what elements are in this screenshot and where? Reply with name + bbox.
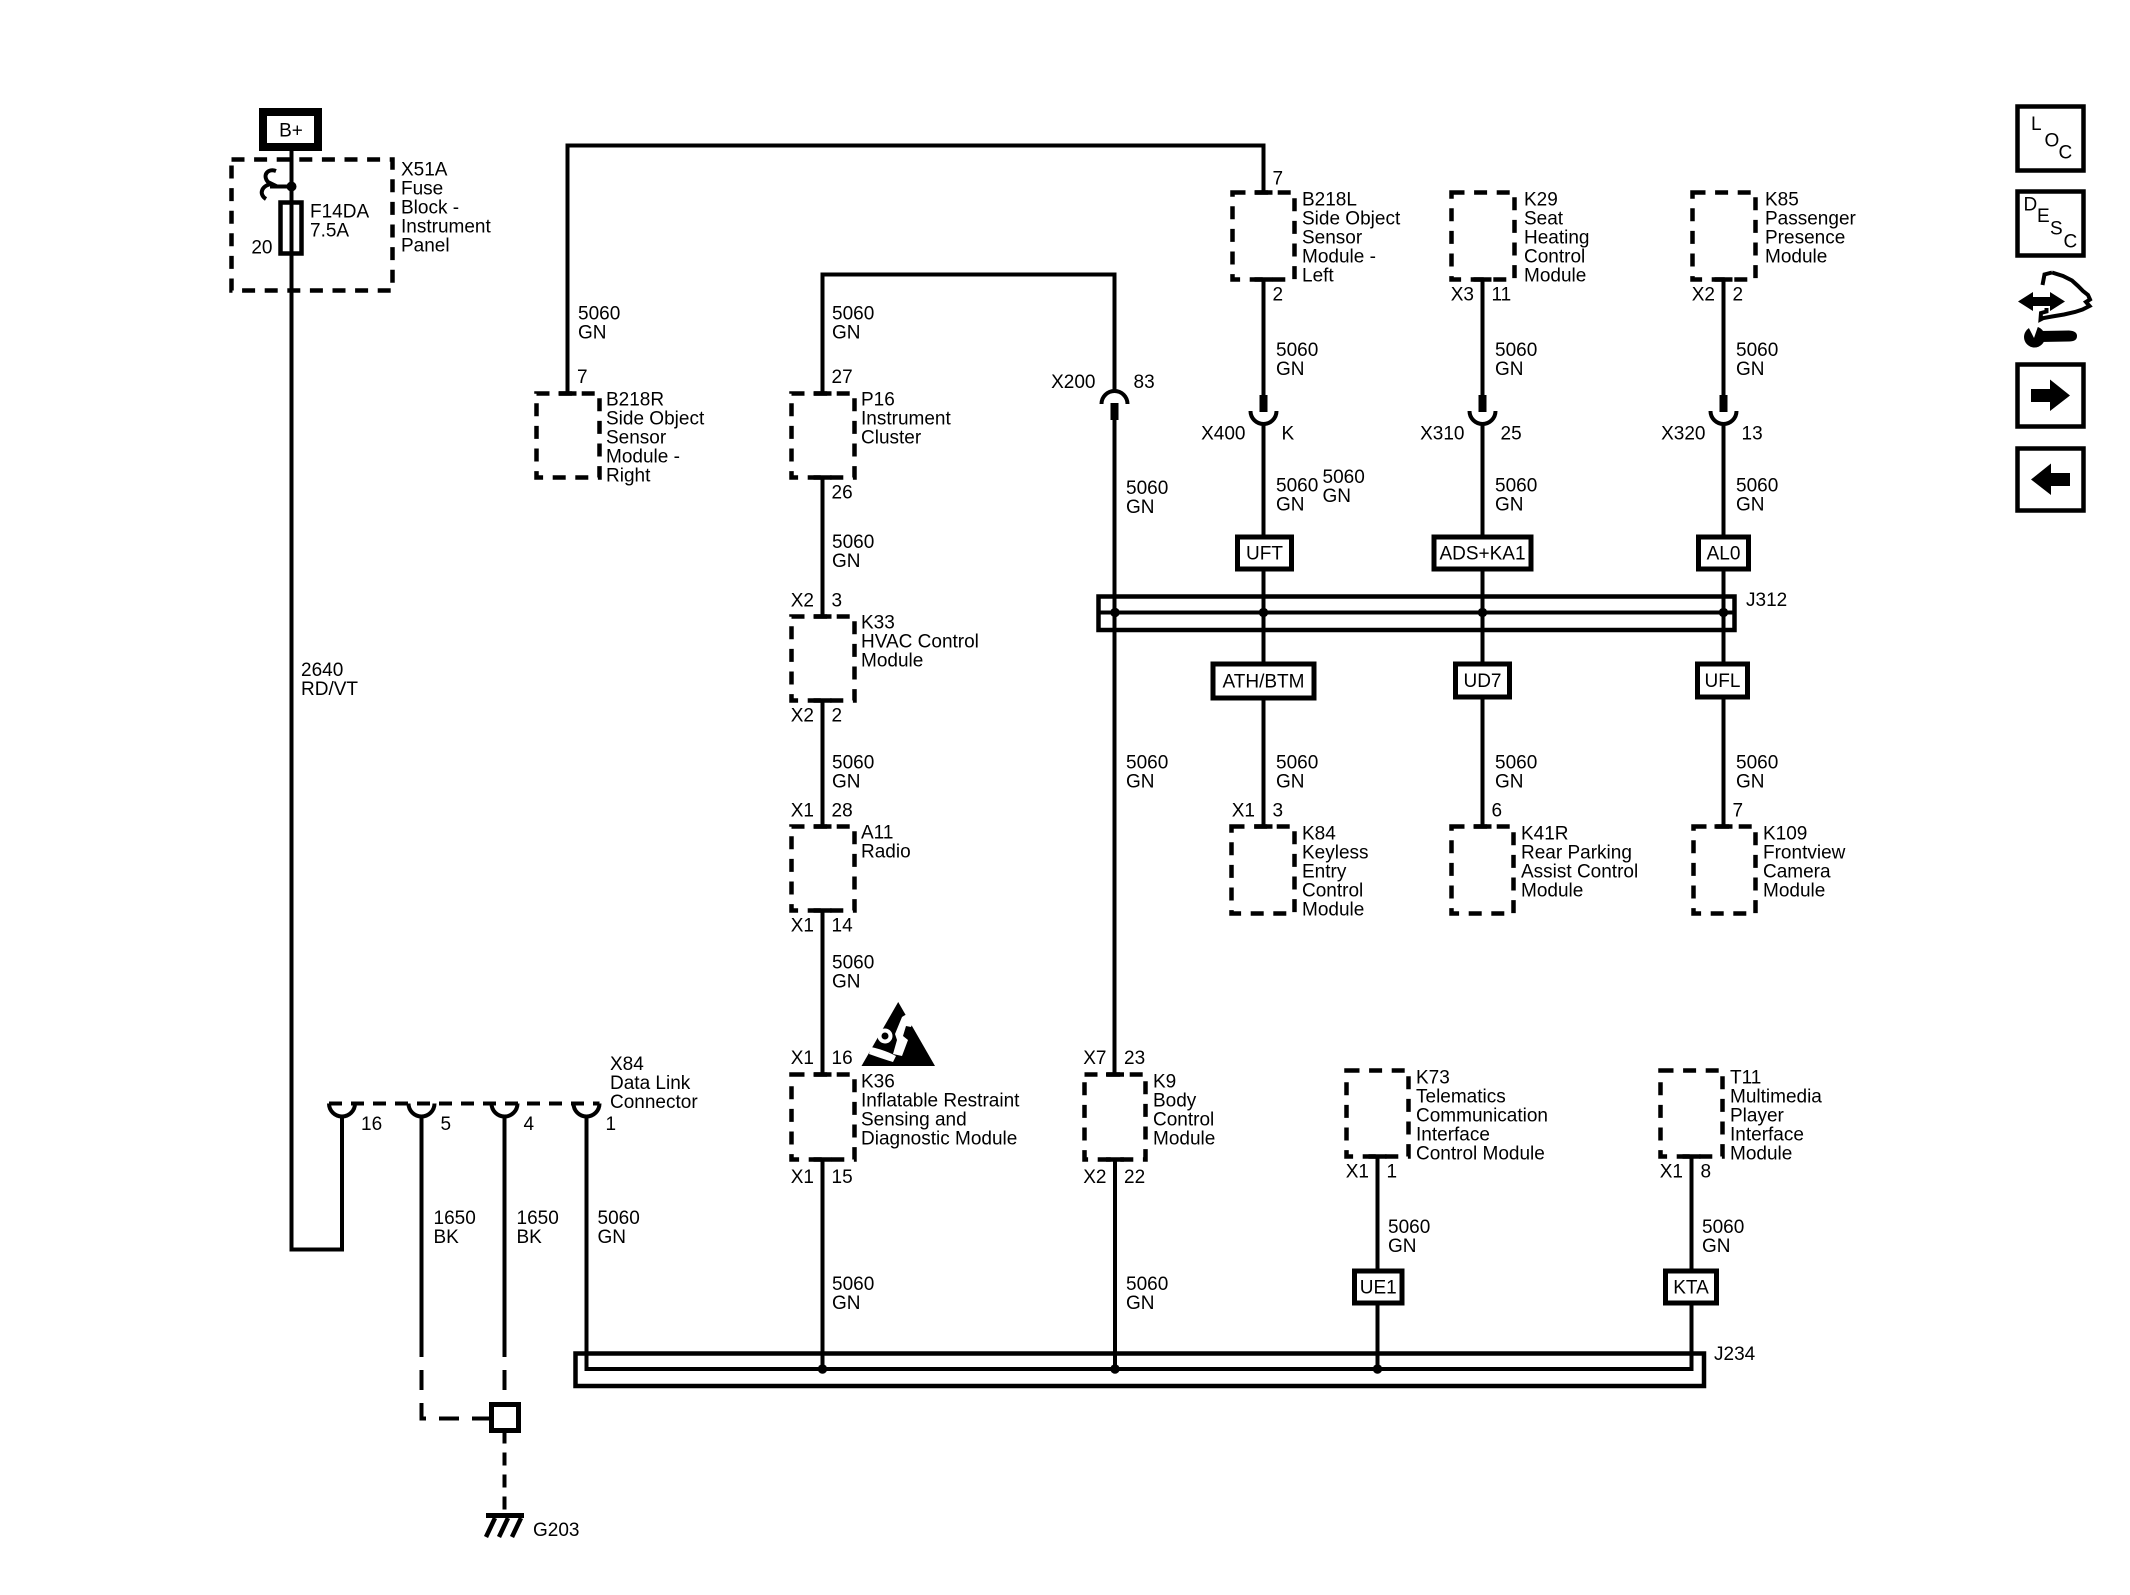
svg-text:5060: 5060 — [1702, 1217, 1744, 1238]
svg-text:B218L: B218L — [1302, 190, 1357, 211]
svg-text:X1: X1 — [791, 1167, 814, 1188]
svg-text:26: 26 — [832, 483, 853, 504]
svg-text:Module: Module — [1763, 881, 1825, 902]
svg-text:Instrument: Instrument — [861, 409, 951, 430]
svg-text:4: 4 — [524, 1114, 535, 1135]
svg-text:83: 83 — [1134, 372, 1155, 393]
svg-text:Inflatable Restraint: Inflatable Restraint — [861, 1091, 1020, 1112]
svg-text:X2: X2 — [1083, 1167, 1106, 1188]
svg-text:L: L — [2031, 114, 2042, 135]
svg-text:Left: Left — [1302, 266, 1334, 287]
svg-text:Cluster: Cluster — [861, 428, 922, 449]
svg-text:5060: 5060 — [832, 753, 874, 774]
svg-text:5060: 5060 — [1736, 476, 1778, 497]
svg-text:K29: K29 — [1524, 190, 1558, 211]
svg-text:1650: 1650 — [434, 1208, 476, 1229]
svg-text:Side Object: Side Object — [606, 409, 705, 430]
svg-text:GN: GN — [832, 323, 861, 344]
svg-text:2: 2 — [832, 706, 843, 727]
svg-text:Instrument: Instrument — [401, 217, 491, 238]
svg-text:X1: X1 — [1660, 1162, 1683, 1183]
svg-text:7: 7 — [1273, 169, 1284, 190]
svg-text:RD/VT: RD/VT — [301, 679, 358, 700]
svg-text:J312: J312 — [1746, 590, 1787, 611]
svg-text:X7: X7 — [1083, 1048, 1106, 1069]
svg-text:25: 25 — [1501, 424, 1522, 445]
svg-text:Passenger: Passenger — [1765, 209, 1857, 230]
svg-text:BK: BK — [434, 1227, 460, 1248]
svg-text:Module -: Module - — [606, 447, 680, 468]
svg-text:5060: 5060 — [1126, 1274, 1168, 1295]
svg-text:5060: 5060 — [832, 1274, 874, 1295]
svg-text:Block -: Block - — [401, 198, 459, 219]
svg-text:UFT: UFT — [1246, 544, 1283, 565]
svg-text:GN: GN — [1276, 359, 1305, 380]
svg-text:23: 23 — [1124, 1048, 1145, 1069]
svg-text:1: 1 — [1387, 1162, 1398, 1183]
svg-text:GN: GN — [1126, 1293, 1155, 1314]
svg-text:Heating: Heating — [1524, 228, 1590, 249]
svg-text:C: C — [2059, 143, 2073, 164]
svg-text:5060: 5060 — [1736, 340, 1778, 361]
svg-text:GN: GN — [1495, 359, 1524, 380]
svg-text:X3: X3 — [1451, 285, 1474, 306]
svg-text:Keyless: Keyless — [1302, 843, 1369, 864]
svg-text:Module: Module — [1524, 266, 1586, 287]
svg-text:E: E — [2037, 206, 2050, 227]
svg-text:C: C — [2064, 232, 2078, 253]
svg-text:GN: GN — [1323, 486, 1352, 507]
svg-text:5060: 5060 — [1276, 340, 1318, 361]
svg-text:X2: X2 — [791, 706, 814, 727]
svg-text:Body: Body — [1153, 1091, 1197, 1112]
svg-text:Presence: Presence — [1765, 228, 1845, 249]
svg-text:8: 8 — [1701, 1162, 1712, 1183]
svg-text:Communication: Communication — [1416, 1106, 1548, 1127]
svg-text:5060: 5060 — [1276, 753, 1318, 774]
svg-text:Assist Control: Assist Control — [1521, 862, 1638, 883]
svg-text:GN: GN — [1276, 772, 1305, 793]
svg-text:Sensor: Sensor — [1302, 228, 1363, 249]
svg-text:5060: 5060 — [1323, 467, 1365, 488]
svg-text:GN: GN — [1736, 495, 1765, 516]
svg-text:X51A: X51A — [401, 160, 448, 181]
svg-text:ATH/BTM: ATH/BTM — [1223, 672, 1305, 693]
svg-text:A11: A11 — [861, 823, 893, 844]
svg-text:Module: Module — [1765, 247, 1827, 268]
svg-text:Control: Control — [1302, 881, 1363, 902]
svg-text:Connector: Connector — [610, 1092, 698, 1113]
svg-text:Side Object: Side Object — [1302, 209, 1401, 230]
svg-text:K41R: K41R — [1521, 824, 1569, 845]
svg-text:GN: GN — [832, 972, 861, 993]
svg-text:Module: Module — [1730, 1144, 1792, 1165]
svg-text:Data Link: Data Link — [610, 1073, 691, 1094]
svg-text:G203: G203 — [533, 1520, 579, 1541]
svg-text:BK: BK — [517, 1227, 543, 1248]
svg-text:X1: X1 — [791, 916, 814, 937]
svg-text:6: 6 — [1492, 801, 1503, 822]
svg-text:20: 20 — [251, 238, 272, 259]
svg-text:Player: Player — [1730, 1106, 1785, 1127]
svg-text:1: 1 — [606, 1114, 617, 1135]
svg-text:5060: 5060 — [832, 304, 874, 325]
svg-text:GN: GN — [832, 772, 861, 793]
svg-text:5060: 5060 — [598, 1208, 640, 1229]
svg-text:UD7: UD7 — [1463, 671, 1501, 692]
svg-text:5060: 5060 — [1736, 753, 1778, 774]
svg-text:F14DA: F14DA — [310, 202, 369, 223]
svg-text:K84: K84 — [1302, 824, 1336, 845]
svg-text:X84: X84 — [610, 1054, 644, 1075]
svg-text:Frontview: Frontview — [1763, 843, 1846, 864]
svg-text:GN: GN — [1495, 495, 1524, 516]
svg-text:Entry: Entry — [1302, 862, 1347, 883]
svg-text:Seat: Seat — [1524, 209, 1564, 230]
svg-text:AL0: AL0 — [1707, 544, 1741, 565]
svg-text:Interface: Interface — [1730, 1125, 1804, 1146]
svg-text:11: 11 — [1492, 285, 1512, 306]
svg-text:GN: GN — [1388, 1236, 1417, 1257]
svg-text:16: 16 — [361, 1114, 382, 1135]
svg-text:X1: X1 — [791, 801, 814, 822]
svg-text:14: 14 — [832, 916, 854, 937]
svg-text:B218R: B218R — [606, 390, 664, 411]
svg-text:B+: B+ — [279, 121, 303, 142]
svg-text:K73: K73 — [1416, 1068, 1450, 1089]
svg-text:GN: GN — [1276, 495, 1305, 516]
svg-text:GN: GN — [832, 1293, 861, 1314]
svg-text:5060: 5060 — [1495, 753, 1537, 774]
svg-text:Multimedia: Multimedia — [1730, 1087, 1822, 1108]
svg-text:X2: X2 — [1692, 285, 1715, 306]
svg-text:Radio: Radio — [861, 842, 911, 863]
svg-text:X1: X1 — [791, 1048, 814, 1069]
svg-text:K36: K36 — [861, 1072, 895, 1093]
svg-text:Diagnostic Module: Diagnostic Module — [861, 1129, 1017, 1150]
svg-text:7: 7 — [1733, 801, 1744, 822]
svg-text:27: 27 — [832, 367, 853, 388]
svg-text:3: 3 — [832, 591, 843, 612]
svg-text:UFL: UFL — [1705, 671, 1741, 692]
svg-text:Control: Control — [1524, 247, 1585, 268]
svg-text:K33: K33 — [861, 613, 895, 634]
svg-text:UE1: UE1 — [1360, 1278, 1397, 1299]
svg-text:5060: 5060 — [832, 953, 874, 974]
svg-text:GN: GN — [1495, 772, 1524, 793]
svg-text:Panel: Panel — [401, 236, 450, 257]
svg-text:GN: GN — [832, 551, 861, 572]
svg-text:5060: 5060 — [1276, 476, 1318, 497]
svg-text:Control: Control — [1153, 1110, 1214, 1131]
svg-text:5060: 5060 — [832, 532, 874, 553]
svg-text:X2: X2 — [791, 591, 814, 612]
svg-text:28: 28 — [832, 801, 853, 822]
svg-text:T11: T11 — [1730, 1068, 1761, 1089]
svg-text:2: 2 — [1273, 285, 1284, 306]
svg-text:ADS+KA1: ADS+KA1 — [1439, 544, 1525, 565]
svg-text:Sensing and: Sensing and — [861, 1110, 967, 1131]
svg-text:GN: GN — [1126, 497, 1155, 518]
svg-text:15: 15 — [832, 1167, 853, 1188]
svg-text:7: 7 — [577, 367, 588, 388]
svg-text:GN: GN — [1736, 359, 1765, 380]
svg-text:K: K — [1282, 424, 1295, 445]
svg-text:1650: 1650 — [517, 1208, 559, 1229]
svg-text:HVAC Control: HVAC Control — [861, 632, 979, 653]
svg-text:GN: GN — [1736, 772, 1765, 793]
svg-text:Sensor: Sensor — [606, 428, 667, 449]
svg-text:7.5A: 7.5A — [310, 221, 349, 242]
svg-text:O: O — [2045, 131, 2060, 152]
svg-text:Rear Parking: Rear Parking — [1521, 843, 1632, 864]
svg-text:GN: GN — [1702, 1236, 1731, 1257]
svg-text:X1: X1 — [1232, 801, 1255, 822]
svg-text:5: 5 — [441, 1114, 452, 1135]
svg-text:K9: K9 — [1153, 1072, 1176, 1093]
svg-text:Module -: Module - — [1302, 247, 1376, 268]
svg-text:22: 22 — [1124, 1167, 1145, 1188]
svg-text:K109: K109 — [1763, 824, 1807, 845]
svg-text:Fuse: Fuse — [401, 179, 443, 200]
svg-text:5060: 5060 — [1126, 478, 1168, 499]
svg-text:Module: Module — [1521, 881, 1583, 902]
svg-text:Right: Right — [606, 466, 651, 487]
svg-text:X400: X400 — [1201, 424, 1245, 445]
svg-text:P16: P16 — [861, 390, 895, 411]
svg-text:5060: 5060 — [1126, 753, 1168, 774]
svg-text:Module: Module — [1153, 1129, 1215, 1150]
svg-text:Telematics: Telematics — [1416, 1087, 1506, 1108]
svg-text:Module: Module — [1302, 900, 1364, 921]
svg-text:Interface: Interface — [1416, 1125, 1490, 1146]
svg-text:D: D — [2024, 195, 2038, 216]
svg-text:GN: GN — [578, 323, 607, 344]
svg-text:13: 13 — [1742, 424, 1763, 445]
svg-text:Control Module: Control Module — [1416, 1144, 1545, 1165]
svg-text:2640: 2640 — [301, 660, 343, 681]
svg-text:KTA: KTA — [1673, 1278, 1709, 1299]
svg-text:3: 3 — [1273, 801, 1284, 822]
svg-text:X200: X200 — [1051, 372, 1095, 393]
svg-text:5060: 5060 — [578, 304, 620, 325]
svg-text:J234: J234 — [1714, 1344, 1756, 1365]
svg-text:5060: 5060 — [1388, 1217, 1430, 1238]
svg-text:Module: Module — [861, 651, 923, 672]
svg-text:S: S — [2050, 219, 2063, 240]
svg-text:GN: GN — [1126, 772, 1155, 793]
svg-text:K85: K85 — [1765, 190, 1799, 211]
svg-text:5060: 5060 — [1495, 476, 1537, 497]
svg-text:16: 16 — [832, 1048, 853, 1069]
svg-text:Camera: Camera — [1763, 862, 1831, 883]
svg-text:5060: 5060 — [1495, 340, 1537, 361]
svg-text:GN: GN — [598, 1227, 627, 1248]
svg-text:X310: X310 — [1420, 424, 1464, 445]
svg-text:X320: X320 — [1661, 424, 1705, 445]
svg-text:2: 2 — [1733, 285, 1744, 306]
svg-text:X1: X1 — [1346, 1162, 1369, 1183]
